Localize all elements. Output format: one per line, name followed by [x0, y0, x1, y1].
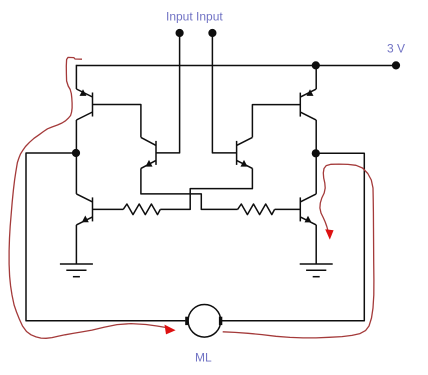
node right output — [312, 149, 320, 157]
node input 1 terminal — [176, 29, 184, 37]
wire input2 to Q4 base — [212, 33, 236, 153]
ground left — [60, 263, 93, 265]
wire Q2 collector to right node — [315, 120, 317, 153]
wire Q2 base to Q4 collector — [252, 105, 300, 138]
ground right — [300, 263, 333, 265]
red annotation stroke right (current path motor to Q6) — [223, 164, 374, 338]
resistor R2 — [238, 204, 275, 215]
wire Q1 base to Q3 collector — [93, 105, 141, 138]
transistor Q6 — [300, 194, 316, 225]
transistor Q1 — [76, 89, 92, 120]
svg-text:Input Input: Input Input — [166, 10, 223, 24]
wire Q5 collector to left node — [75, 153, 77, 194]
wire Q3 emitter cross-couple to R2 — [141, 168, 238, 209]
wire left node to motor — [26, 153, 185, 321]
wire 3V top rail — [76, 65, 396, 67]
wire right node to motor — [222, 153, 364, 320]
wire Q6 emitter to ground — [315, 225, 317, 264]
node rail junction — [312, 61, 320, 69]
wire input1 to Q3 base — [156, 33, 180, 153]
transistor Q3 — [141, 137, 156, 168]
node 3V terminal — [392, 61, 400, 69]
wire Q5 base lead to R1 — [93, 208, 124, 210]
wire Q5 emitter to ground — [75, 225, 77, 264]
transistor Q4 — [237, 137, 253, 168]
motor ML — [185, 305, 222, 338]
wire rail left drop to Q1 emitter — [75, 65, 77, 89]
svg-text:3 V: 3 V — [387, 41, 405, 55]
transistor Q2 — [300, 89, 316, 120]
wire Q6 collector to right node — [315, 153, 317, 194]
red annotation stroke left (current path from rail to motor) — [9, 57, 166, 338]
node left output — [72, 149, 80, 157]
wire Q4 emitter cross-couple to R1 — [160, 168, 252, 209]
transistor Q5 — [76, 194, 92, 225]
wire Q1 collector to left node — [75, 120, 77, 153]
red arrowhead pointing right at motor — [165, 325, 176, 335]
svg-text:ML: ML — [195, 351, 212, 365]
red arrowhead pointing down at Q6 — [325, 229, 333, 239]
node input 2 terminal — [208, 29, 216, 37]
resistor R1 — [123, 204, 160, 215]
wire R2 to Q6 base — [275, 208, 301, 210]
wire rail junction drop to Q2 emitter — [315, 65, 317, 89]
